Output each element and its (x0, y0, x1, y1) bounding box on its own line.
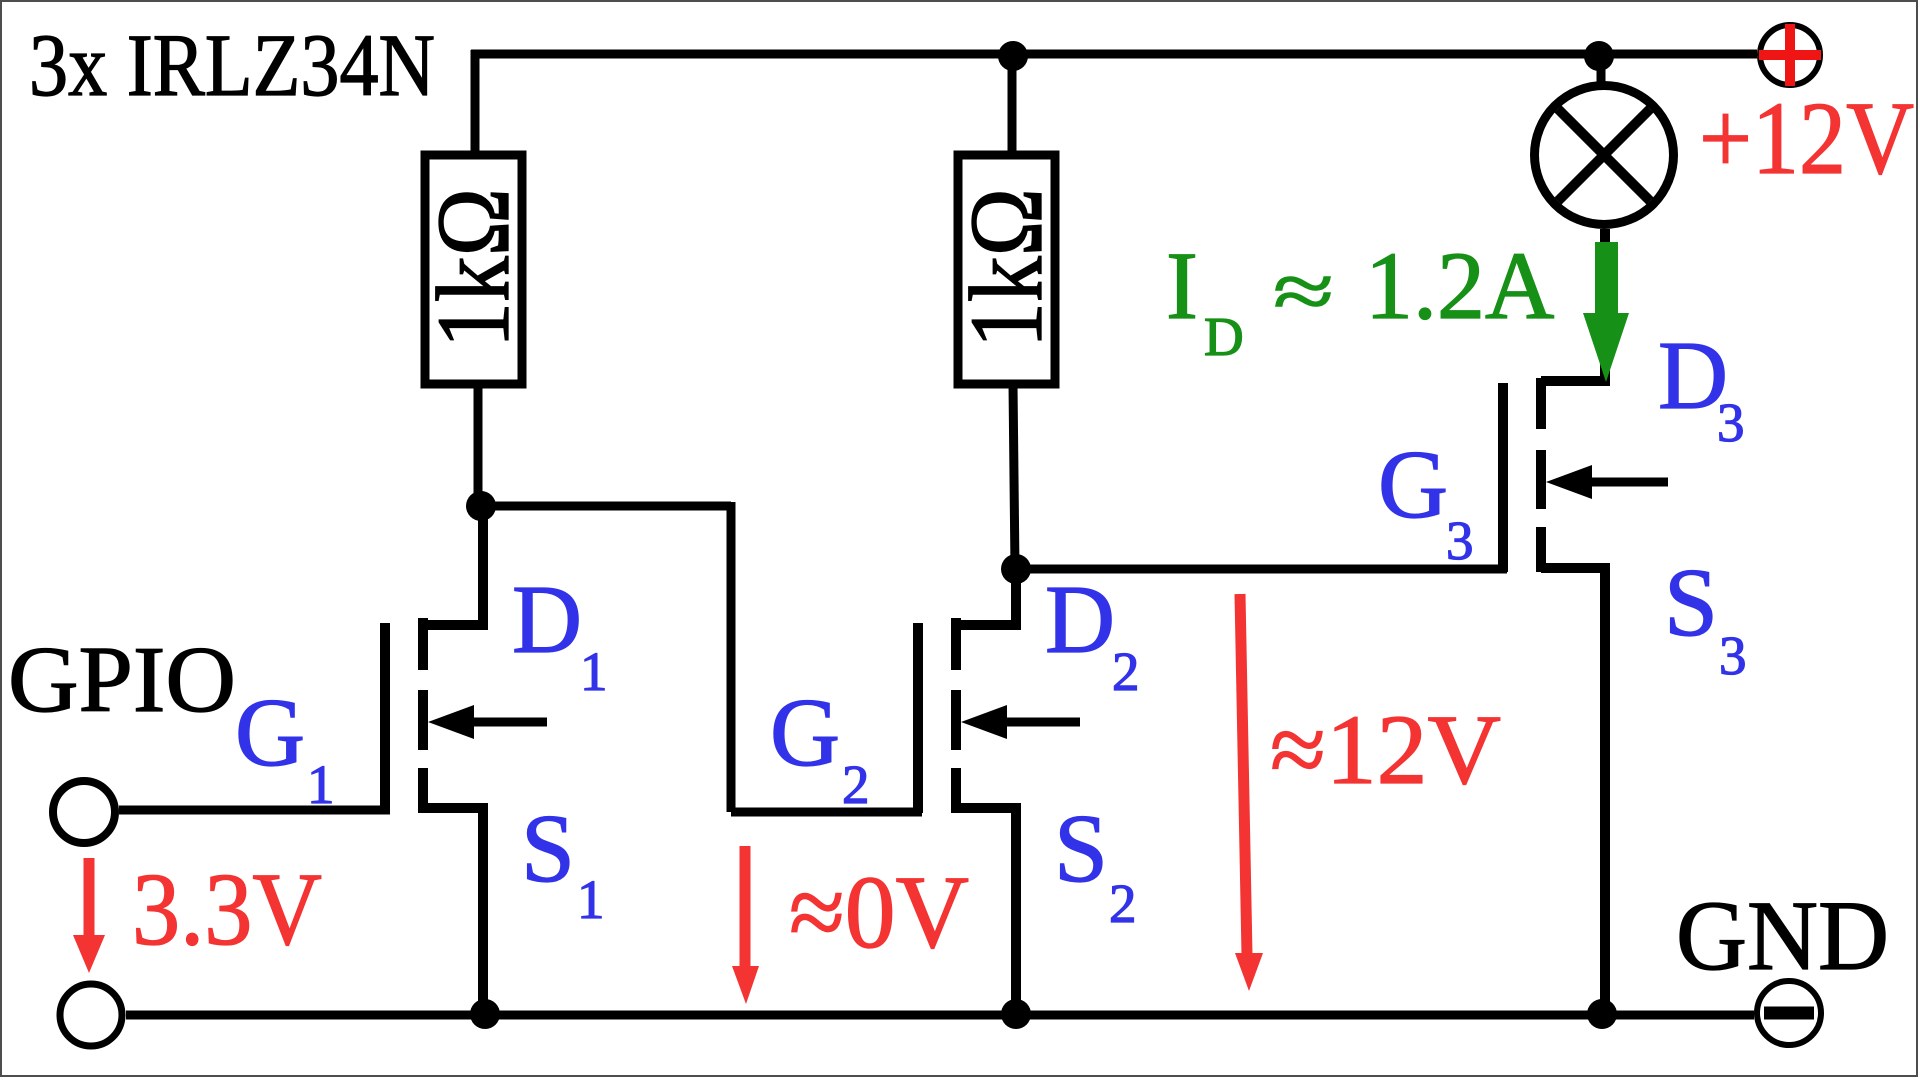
node S3 on bottom rail (1587, 999, 1617, 1029)
terminal GPIO (53, 781, 115, 843)
svg-text:≈12V: ≈12V (1270, 694, 1501, 805)
svg-text:1: 1 (580, 641, 608, 702)
svg-text:S: S (1054, 795, 1108, 902)
svg-text:+12V: +12V (1699, 81, 1914, 196)
svg-text:2: 2 (1112, 641, 1140, 702)
node S2 on bottom rail (1001, 999, 1031, 1029)
lamp X stroke 2 (1558, 109, 1650, 201)
Q2 bulk arrow (1003, 718, 1080, 727)
Q3 gate bar (1498, 383, 1508, 572)
svg-text:2: 2 (842, 754, 870, 815)
svg-text:2: 2 (1109, 873, 1137, 934)
wire R1 bottom lead (474, 384, 483, 506)
terminal +12V (1759, 24, 1821, 86)
svg-text:≈0V: ≈0V (789, 855, 969, 970)
Q1 gate bar (380, 623, 390, 813)
Q3 source lead (1541, 568, 1605, 1015)
voltage arrow 3.3V (red) (73, 858, 105, 973)
wire node B to G3 (1016, 565, 1507, 574)
transistor Q2 (918, 569, 1080, 1015)
wire to gate of Q2 (731, 808, 922, 817)
minus bar (1764, 1007, 1814, 1020)
svg-text:1kΩ: 1kΩ (416, 188, 531, 348)
svg-text:3x IRLZ34N: 3x IRLZ34N (29, 17, 435, 115)
Q3 channel dash bottom (1536, 527, 1546, 572)
svg-text:G: G (1378, 431, 1448, 538)
svg-text:1kΩ: 1kΩ (949, 188, 1064, 348)
svg-text:3: 3 (1717, 392, 1745, 453)
lamp circle (1535, 86, 1674, 225)
Q2 channel dash bottom (951, 768, 961, 813)
resistor R1 (425, 155, 522, 384)
resistor R2 (958, 155, 1055, 384)
svg-text:D: D (1204, 306, 1244, 367)
red cross horizontal (1759, 50, 1821, 60)
voltage arrow ≈12V (red) (1235, 594, 1263, 991)
wire R2 bottom lead (1013, 384, 1015, 569)
node A (R1 / Q1 drain junction) (466, 491, 496, 521)
svg-text:3.3V: 3.3V (132, 852, 322, 967)
wire top rail (471, 50, 1757, 59)
lamp top stub (1597, 54, 1606, 84)
svg-text:S: S (521, 795, 575, 902)
Q3 channel dash top (1536, 378, 1546, 429)
svg-text:1.2A: 1.2A (1365, 232, 1554, 339)
wire R2 top lead (1008, 50, 1017, 155)
svg-text:G: G (770, 679, 840, 786)
node B (R2 / Q2 drain / G3 junction) (1001, 554, 1031, 584)
Q3 bulk arrow (1588, 478, 1668, 487)
terminal bottom-left (60, 984, 122, 1046)
wire bottom rail (126, 1011, 1754, 1020)
Q3 channel dash middle (1536, 450, 1546, 509)
svg-text:D: D (512, 566, 582, 673)
node on top rail above lamp (1584, 41, 1614, 71)
red cross vertical (1785, 24, 1795, 86)
svg-text:GND: GND (1676, 880, 1889, 991)
Q1 bulk arrow (470, 718, 547, 727)
node S1 on bottom rail (470, 999, 500, 1029)
transistor Q3 (1503, 229, 1668, 1015)
svg-text:≈: ≈ (1273, 248, 1334, 336)
Q1 channel dash middle (418, 690, 428, 750)
svg-text:D: D (1045, 566, 1115, 673)
svg-text:G: G (235, 679, 305, 786)
wire vertical down to G2 level (727, 502, 736, 812)
lamp X stroke 1 (1558, 109, 1650, 201)
svg-text:1: 1 (577, 869, 605, 930)
Q1 source lead (423, 808, 483, 1015)
svg-text:3: 3 (1719, 625, 1747, 686)
Q3 drain lead (1541, 229, 1605, 381)
Q2 channel dash middle (951, 690, 961, 750)
current arrow ID (green) (1583, 242, 1629, 382)
wire R1 top lead (471, 50, 480, 155)
Q1 channel dash top (418, 618, 428, 670)
svg-text:S: S (1664, 549, 1718, 656)
wire GPIO to Q1 gate (119, 806, 390, 815)
svg-text:3: 3 (1446, 510, 1474, 571)
svg-text:I: I (1166, 232, 1198, 339)
Q1 drain lead (423, 506, 483, 625)
lamp L1 (1535, 41, 1674, 225)
wire node A to G2 horizontal (481, 502, 731, 511)
terminal GND (1757, 981, 1821, 1045)
Q2 channel dash top (951, 618, 961, 670)
voltage arrow ≈0V (red) (732, 846, 759, 1004)
Q2 source lead (956, 808, 1016, 1015)
Q2 drain lead (956, 569, 1016, 625)
transistor Q1 (385, 506, 547, 1015)
Q2 gate bar (913, 623, 923, 813)
Q1 channel dash bottom (418, 768, 428, 813)
node on top rail above R2 (998, 41, 1028, 71)
svg-text:GPIO: GPIO (8, 628, 236, 732)
